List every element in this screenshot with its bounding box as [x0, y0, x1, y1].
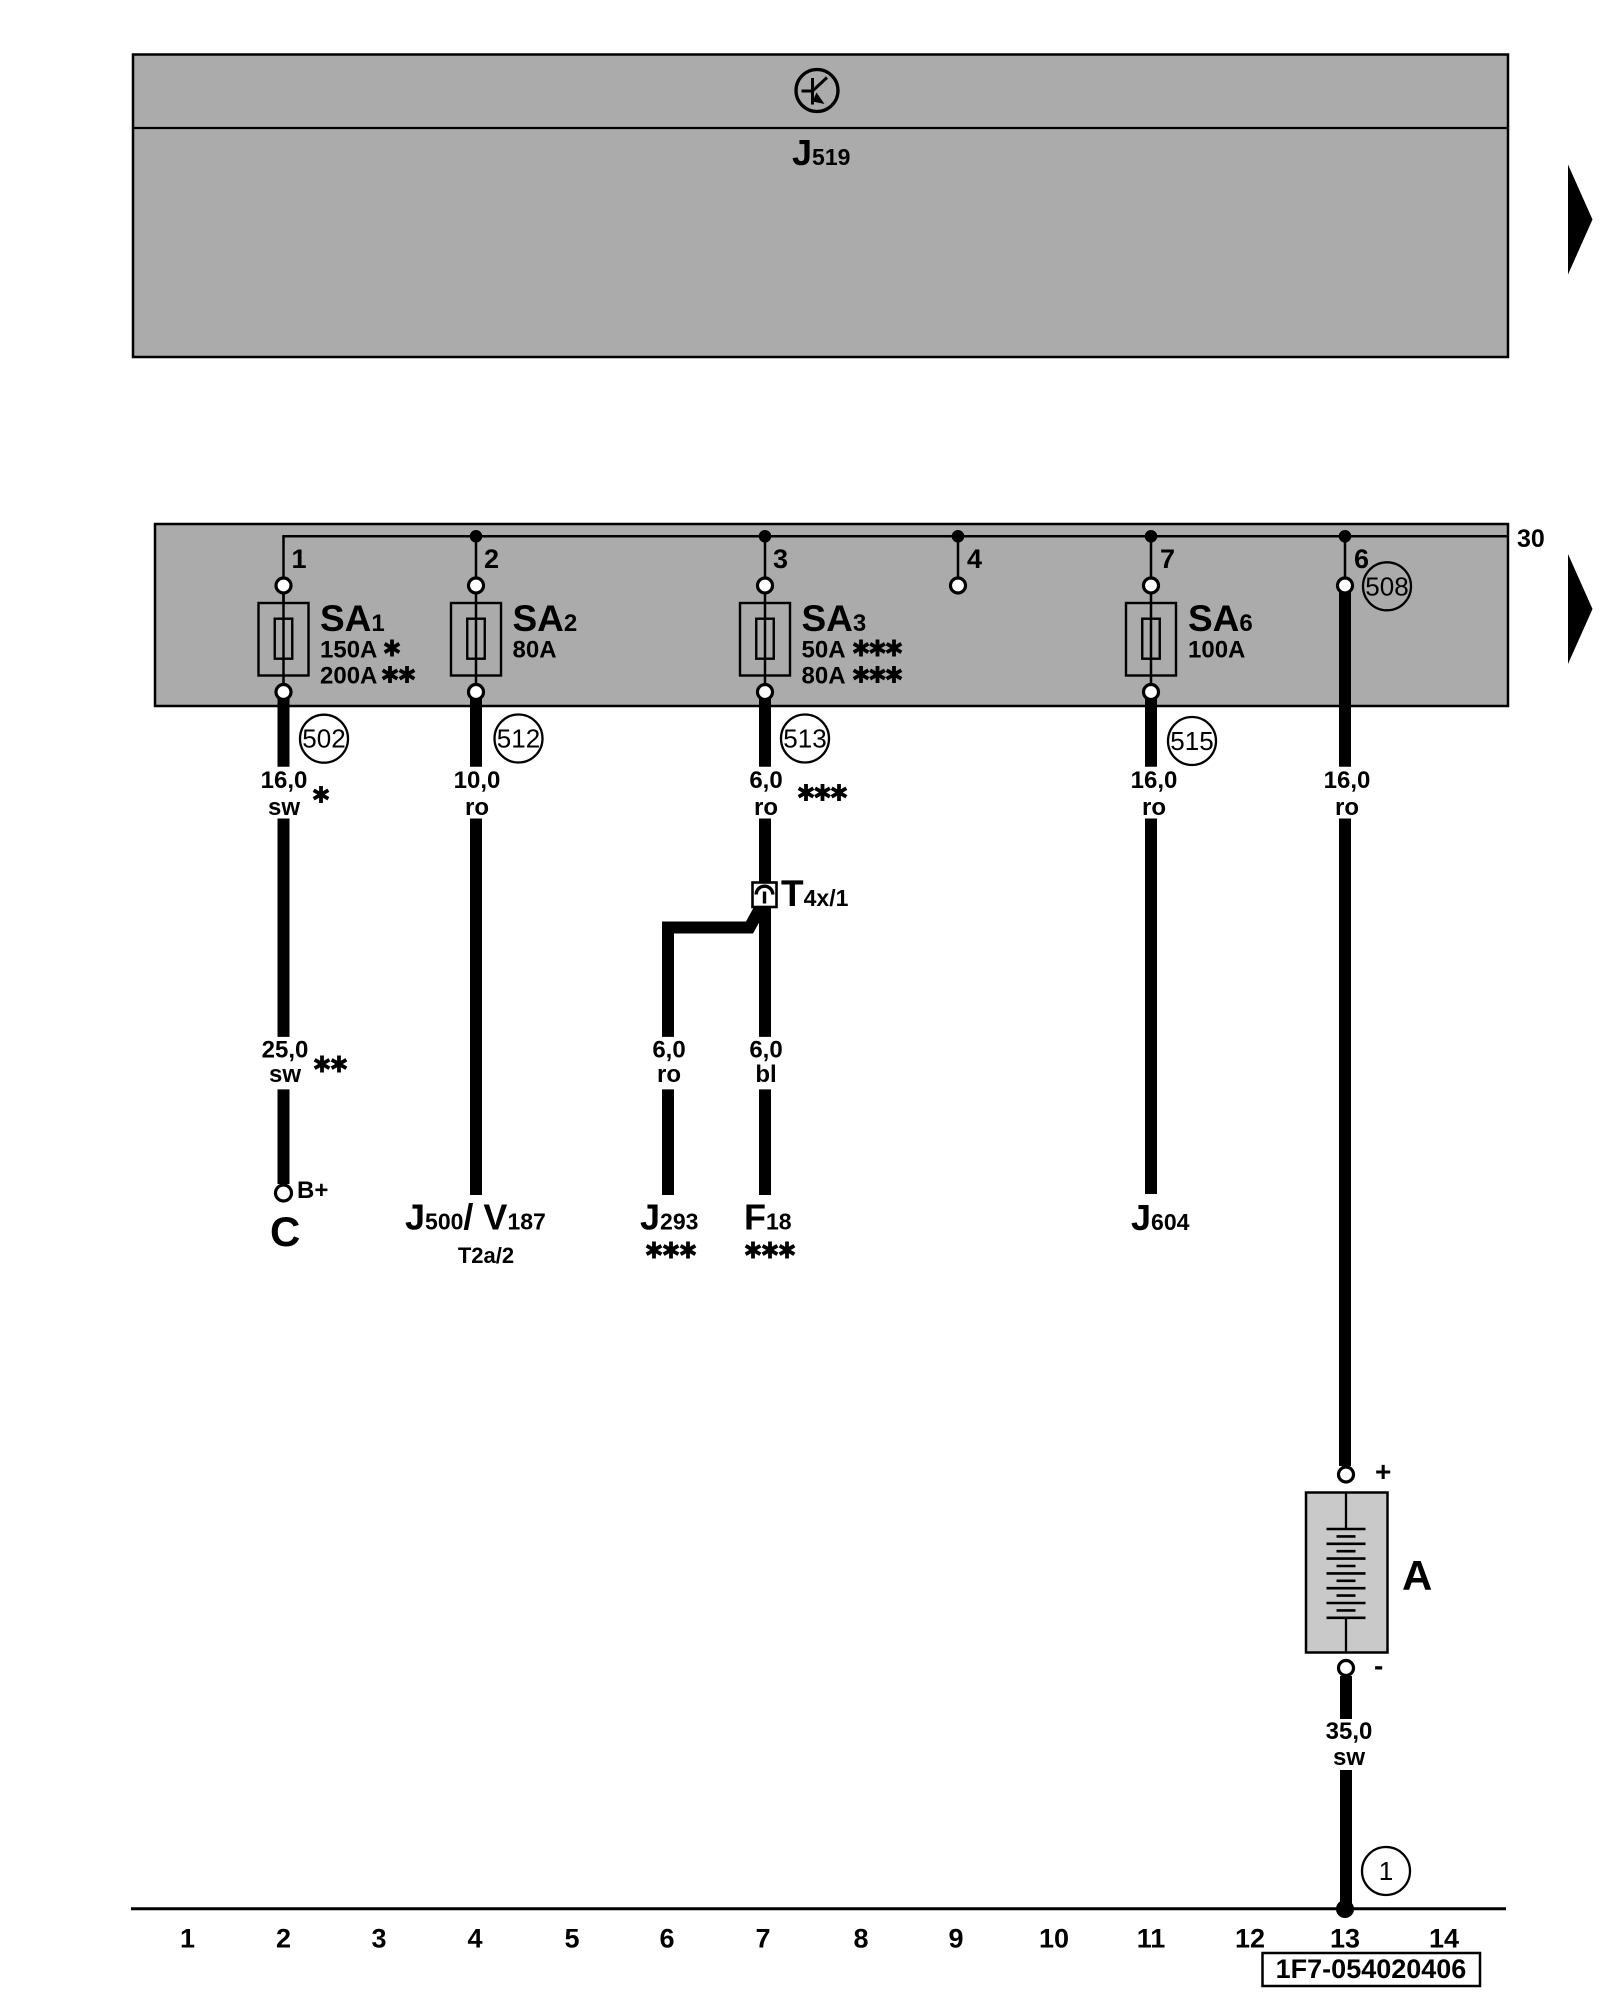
svg-text:30: 30 — [1517, 525, 1545, 553]
svg-text:A: A — [1402, 1552, 1432, 1599]
svg-text:6,0: 6,0 — [749, 767, 782, 794]
svg-text:J500/ V187: J500/ V187 — [405, 1197, 546, 1238]
svg-text:bl: bl — [755, 1061, 776, 1088]
svg-text:C: C — [270, 1208, 300, 1255]
svg-text:150A: 150A — [320, 637, 377, 664]
svg-text:25,0: 25,0 — [262, 1037, 309, 1064]
svg-text:10,0: 10,0 — [454, 767, 501, 794]
svg-text:10: 10 — [1039, 1924, 1069, 1954]
svg-text:1: 1 — [180, 1924, 195, 1954]
svg-text:ro: ro — [1335, 794, 1359, 821]
svg-text:7: 7 — [755, 1924, 770, 1954]
svg-text:11: 11 — [1137, 1924, 1166, 1954]
svg-text:4: 4 — [467, 1924, 482, 1954]
svg-text:+: + — [1375, 1456, 1391, 1487]
svg-text:16,0: 16,0 — [261, 767, 308, 794]
svg-text:12: 12 — [1235, 1924, 1265, 1954]
svg-text:sw: sw — [268, 794, 300, 821]
svg-text:35,0: 35,0 — [1326, 1718, 1373, 1745]
svg-text:6: 6 — [1354, 544, 1369, 574]
svg-text:1F7-054020406: 1F7-054020406 — [1276, 1954, 1467, 1984]
svg-text:16,0: 16,0 — [1131, 767, 1178, 794]
svg-text:50A: 50A — [802, 637, 846, 664]
svg-text:sw: sw — [1333, 1744, 1365, 1771]
svg-text:508: 508 — [1365, 571, 1408, 601]
svg-text:J604: J604 — [1131, 1197, 1190, 1238]
svg-text:14: 14 — [1429, 1924, 1459, 1954]
svg-text:T4x/1: T4x/1 — [781, 873, 849, 914]
svg-text:9: 9 — [948, 1924, 963, 1954]
svg-text:80A: 80A — [513, 637, 557, 664]
svg-text:1: 1 — [1379, 1856, 1393, 1886]
svg-text:6,0: 6,0 — [749, 1037, 782, 1064]
svg-text:515: 515 — [1170, 726, 1213, 756]
svg-text:13: 13 — [1330, 1924, 1360, 1954]
svg-text:100A: 100A — [1188, 637, 1245, 664]
svg-text:sw: sw — [269, 1061, 301, 1088]
svg-text:1: 1 — [292, 544, 307, 574]
svg-text:ro: ro — [465, 794, 489, 821]
svg-text:6,0: 6,0 — [652, 1037, 685, 1064]
svg-text:J293: J293 — [640, 1197, 698, 1238]
svg-text:7: 7 — [1160, 544, 1175, 574]
svg-text:5: 5 — [564, 1924, 579, 1954]
svg-text:-: - — [1374, 1650, 1383, 1681]
svg-text:F18: F18 — [744, 1197, 792, 1238]
svg-text:3: 3 — [773, 544, 788, 574]
svg-text:16,0: 16,0 — [1324, 767, 1371, 794]
svg-text:ro: ro — [1142, 794, 1166, 821]
svg-text:4: 4 — [967, 544, 982, 574]
svg-text:200A: 200A — [320, 663, 377, 690]
svg-text:2: 2 — [484, 544, 499, 574]
svg-text:ro: ro — [754, 794, 778, 821]
svg-text:B+: B+ — [297, 1177, 328, 1204]
svg-text:ro: ro — [657, 1061, 681, 1088]
svg-text:3: 3 — [371, 1924, 386, 1954]
svg-text:513: 513 — [783, 724, 826, 754]
svg-text:6: 6 — [659, 1924, 674, 1954]
svg-text:8: 8 — [853, 1924, 868, 1954]
svg-text:512: 512 — [497, 724, 540, 754]
svg-text:2: 2 — [276, 1924, 291, 1954]
svg-text:T2a/2: T2a/2 — [458, 1243, 514, 1268]
svg-text:502: 502 — [302, 724, 345, 754]
svg-text:80A: 80A — [802, 663, 846, 690]
